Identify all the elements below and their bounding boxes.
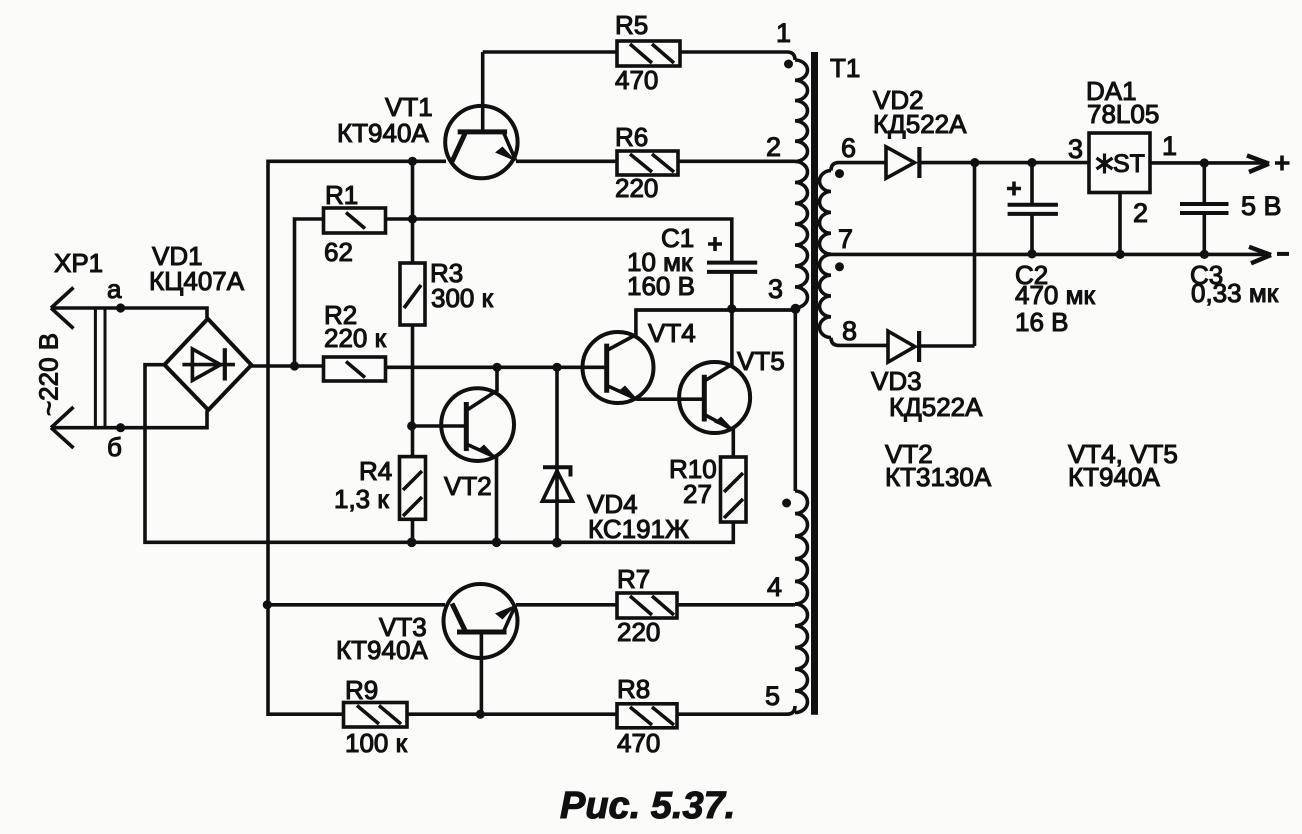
- svg-text:470: 470: [617, 728, 660, 758]
- svg-text:б: б: [107, 432, 122, 462]
- svg-text:XP1: XP1: [54, 248, 103, 278]
- svg-text:R4: R4: [359, 456, 392, 486]
- svg-text:470: 470: [615, 65, 658, 95]
- svg-text:5: 5: [765, 681, 780, 711]
- svg-text:КД522А: КД522А: [873, 109, 967, 139]
- svg-text:27: 27: [683, 479, 712, 509]
- svg-text:R7: R7: [617, 564, 650, 594]
- svg-text:78L05: 78L05: [1087, 99, 1159, 129]
- svg-text:КС191Ж: КС191Ж: [588, 514, 689, 544]
- svg-text:КТ940А: КТ940А: [337, 118, 429, 148]
- svg-text:100 к: 100 к: [345, 728, 408, 758]
- svg-text:R6: R6: [615, 122, 648, 152]
- svg-text:КТ3130А: КТ3130А: [885, 462, 992, 492]
- svg-text:Т1: Т1: [830, 53, 860, 83]
- svg-text:~220 В: ~220 В: [34, 333, 64, 416]
- svg-text:2: 2: [766, 132, 781, 162]
- svg-text:VT4: VT4: [648, 318, 696, 348]
- svg-text:220: 220: [617, 617, 660, 647]
- svg-text:2: 2: [1133, 198, 1148, 228]
- svg-text:ST: ST: [1113, 150, 1145, 178]
- svg-text:R9: R9: [345, 675, 378, 705]
- svg-text:6: 6: [841, 133, 856, 163]
- svg-text:3: 3: [768, 274, 783, 304]
- svg-text:5 В: 5 В: [1241, 191, 1282, 221]
- svg-text:КТ940А: КТ940А: [336, 635, 428, 665]
- svg-text:7: 7: [838, 224, 853, 254]
- svg-text:16 В: 16 В: [1015, 307, 1069, 337]
- svg-text:R8: R8: [617, 674, 650, 704]
- svg-text:КЦ407А: КЦ407А: [149, 266, 245, 296]
- svg-text:300 к: 300 к: [431, 283, 494, 313]
- svg-text:8: 8: [842, 316, 857, 346]
- svg-text:R5: R5: [615, 10, 648, 40]
- svg-text:КТ940А: КТ940А: [1068, 462, 1160, 492]
- svg-text:R1: R1: [325, 180, 358, 210]
- svg-text:4: 4: [767, 572, 782, 602]
- svg-text:1: 1: [776, 18, 791, 48]
- svg-text:160 В: 160 В: [627, 271, 695, 301]
- svg-text:1,3 к: 1,3 к: [334, 484, 389, 514]
- svg-text:220 к: 220 к: [324, 323, 387, 353]
- svg-text:КД522А: КД522А: [889, 392, 983, 422]
- svg-text:1: 1: [1162, 131, 1177, 161]
- svg-text:а: а: [107, 274, 122, 304]
- svg-text:VT5: VT5: [737, 346, 785, 376]
- svg-text:Рис. 5.37.: Рис. 5.37.: [560, 785, 735, 827]
- svg-text:VT2: VT2: [444, 471, 492, 501]
- svg-text:220: 220: [615, 173, 658, 203]
- svg-text:62: 62: [324, 237, 353, 267]
- svg-text:0,33 мк: 0,33 мк: [1191, 278, 1279, 308]
- svg-text:470 мк: 470 мк: [1015, 280, 1095, 310]
- svg-text:3: 3: [1068, 134, 1083, 164]
